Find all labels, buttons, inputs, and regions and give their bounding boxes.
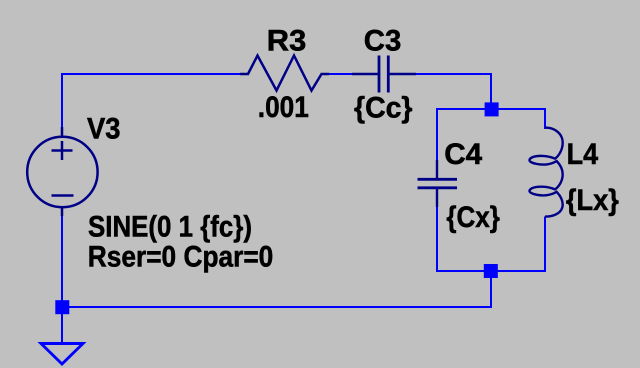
wire from tank bottom node down (490, 271, 492, 308)
wire bottom rail of LC tank (436, 270, 546, 272)
capacitor C4 symbol (418, 160, 458, 207)
inductor L4 symbol (530, 128, 563, 217)
capacitor C3 symbol (352, 56, 416, 93)
svg-text:V3: V3 (87, 112, 121, 145)
wire right vertical down to tank top node (490, 73, 492, 109)
wire L4 branch upper (544, 108, 546, 129)
svg-text:{Cx}: {Cx} (446, 201, 500, 234)
wire bottom horizontal (61, 306, 492, 308)
svg-text:L4: L4 (567, 138, 599, 171)
junction node at tank bottom (484, 264, 498, 278)
svg-text:Rser=0 Cpar=0: Rser=0 Cpar=0 (88, 241, 273, 274)
wire top horizontal (corner to R3 left pin) (61, 73, 241, 75)
wire top rail of LC tank (436, 108, 546, 110)
wire between R3 and C3 (328, 73, 353, 75)
voltage source V3 symbol (27, 127, 97, 216)
svg-text:SINE(0 1 {fc}): SINE(0 1 {fc}) (88, 211, 252, 244)
wire ground stub (61, 308, 63, 344)
wire top-left vertical (corner down to V3 top pin) (61, 73, 63, 128)
svg-text:{Lx}: {Lx} (566, 184, 619, 217)
svg-text:.001: .001 (258, 91, 309, 124)
svg-text:C3: C3 (364, 25, 402, 58)
junction node at tank top (485, 102, 499, 116)
svg-text:{Cc}: {Cc} (354, 92, 413, 125)
wire C4 branch lower (436, 206, 438, 272)
wire L4 branch lower (544, 217, 546, 273)
wire C4 branch upper (436, 108, 438, 161)
wire C3 to top-right corner (415, 73, 492, 75)
svg-text:R3: R3 (267, 25, 307, 58)
junction node at ground (55, 300, 69, 314)
ground (41, 344, 83, 365)
wire V3 bottom to ground node (61, 215, 63, 308)
resistor R3 symbol (240, 56, 329, 91)
svg-text:C4: C4 (444, 138, 482, 171)
